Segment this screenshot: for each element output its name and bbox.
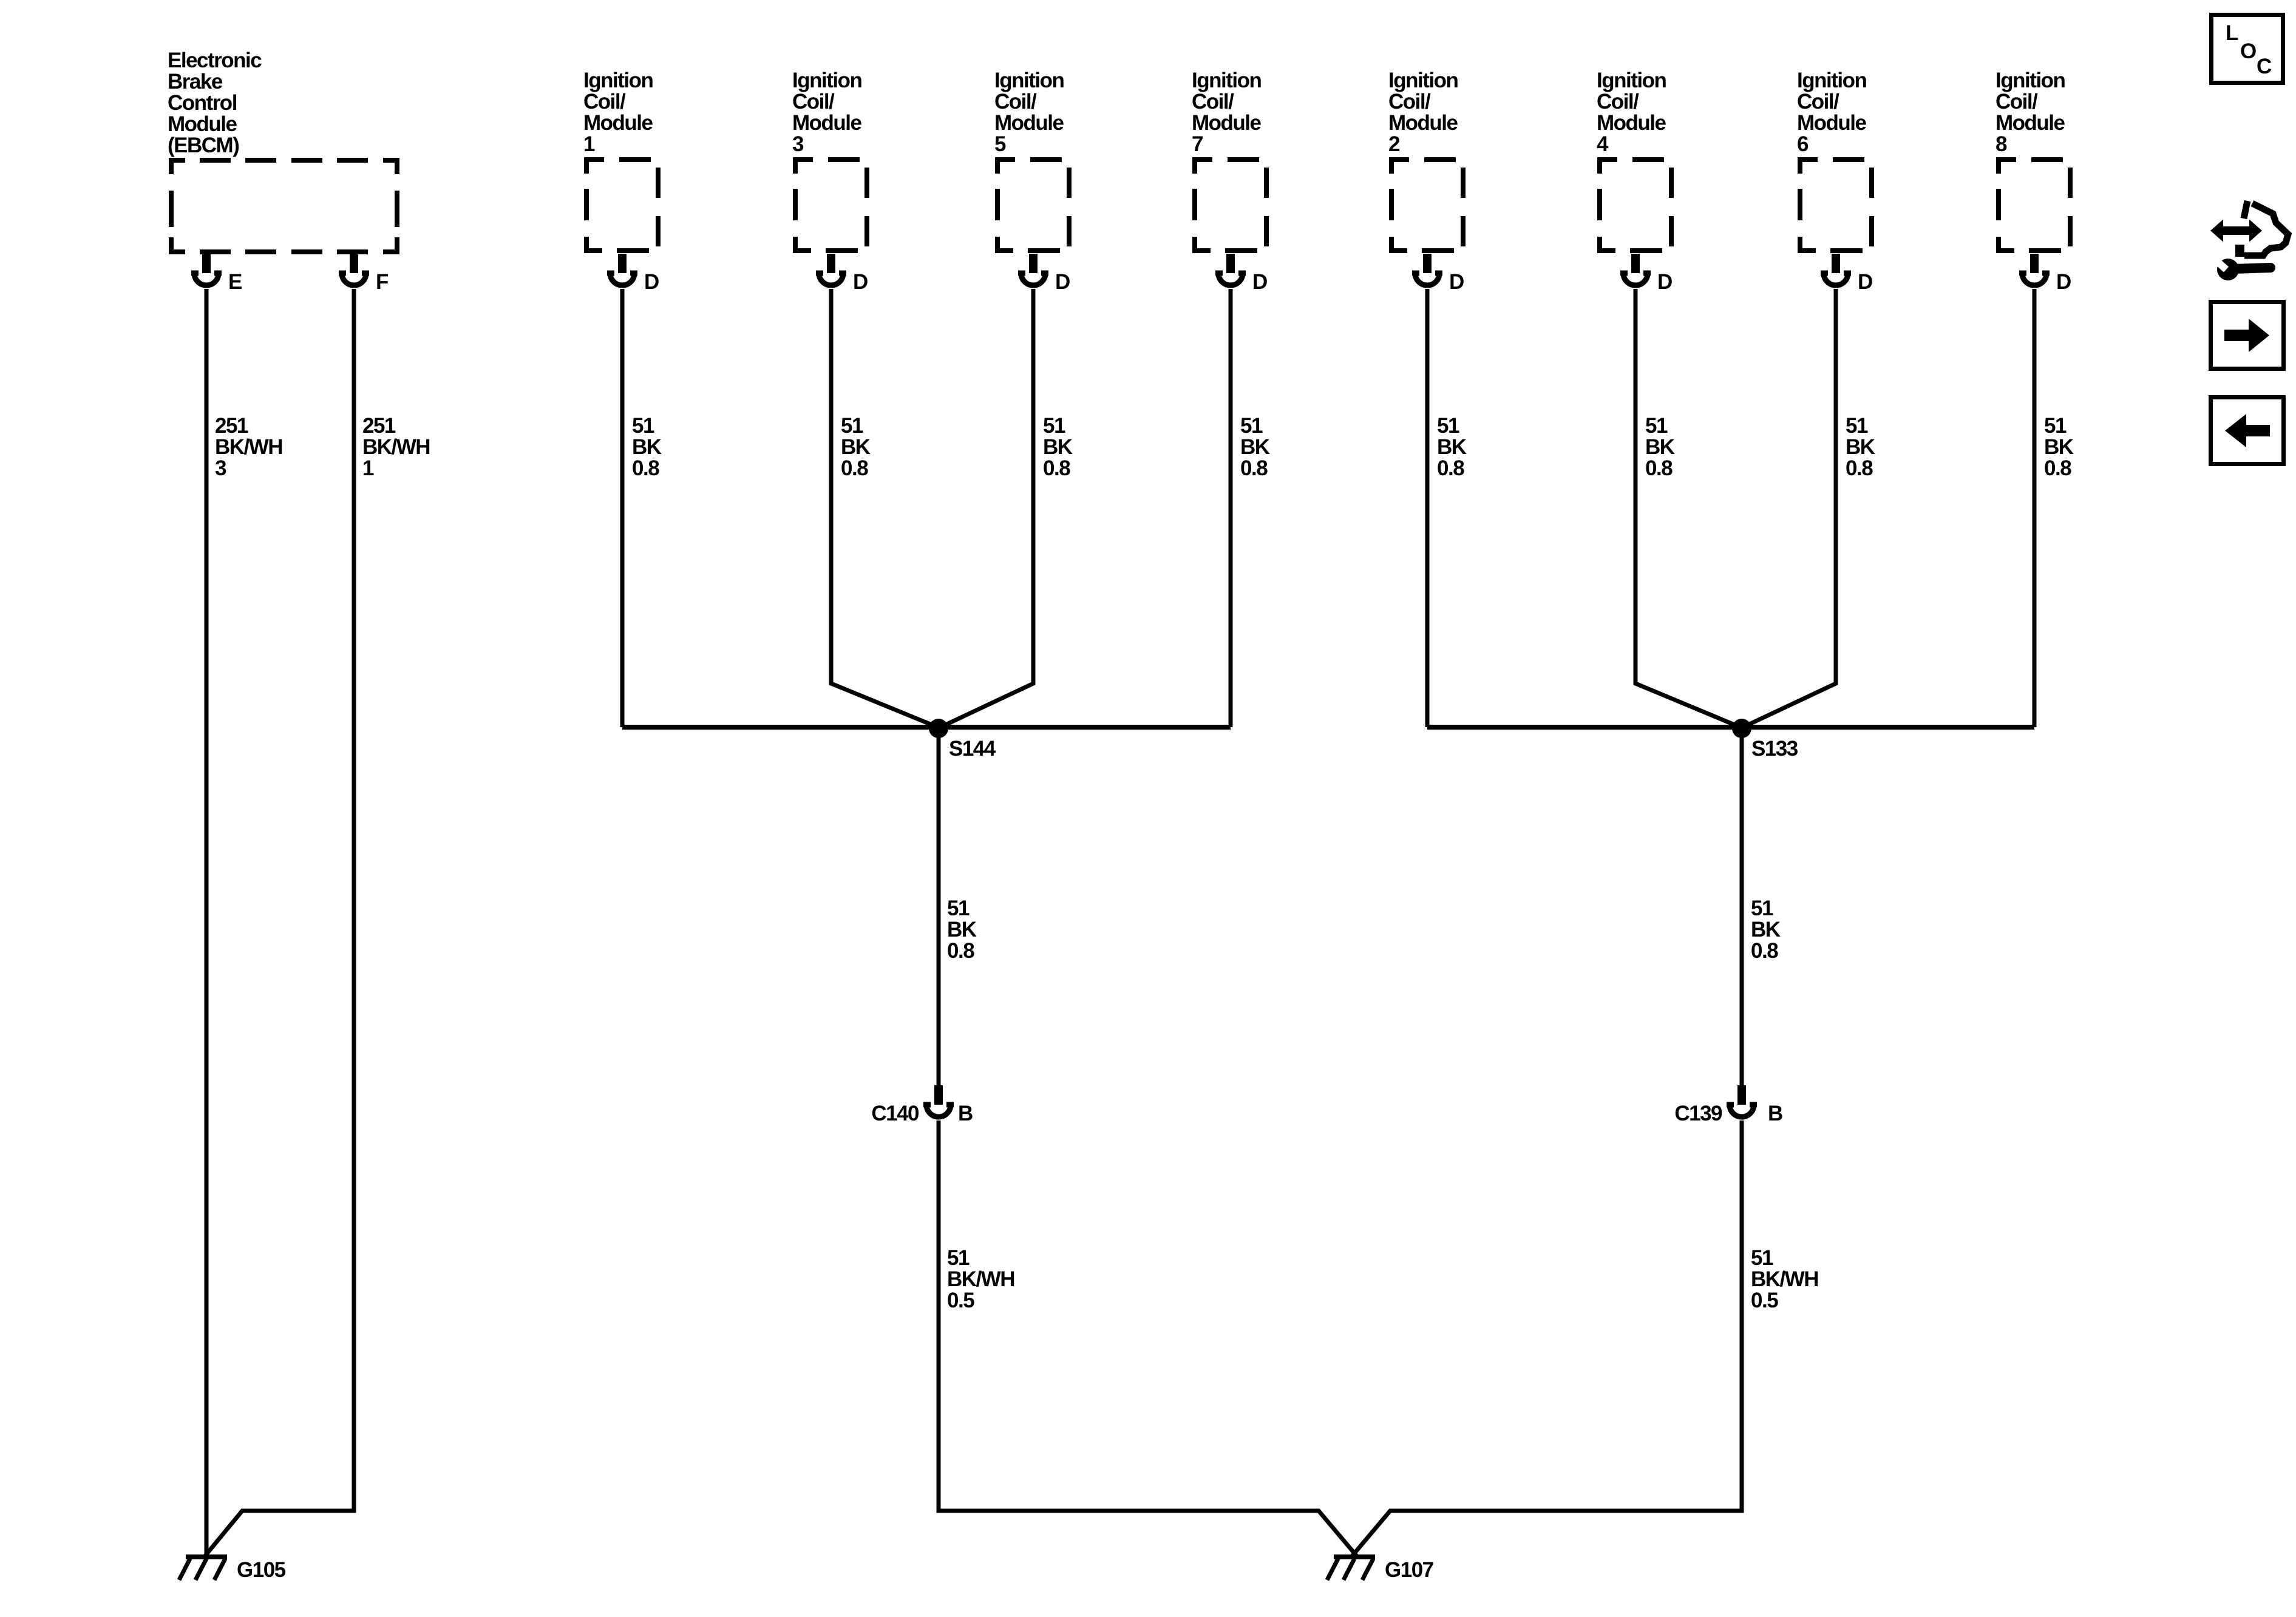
svg-text:L: L [2226, 21, 2238, 45]
svg-text:Module: Module [1192, 111, 1262, 135]
pin D of coil 1 [607, 254, 659, 294]
svg-text:BK/WH: BK/WH [215, 435, 282, 459]
pin D of coil 7 [1215, 254, 1267, 294]
svg-text:51: 51 [2044, 414, 2067, 438]
pin D of coil 8 [2019, 254, 2071, 294]
svg-text:Ignition: Ignition [583, 69, 653, 92]
svg-text:Coil/: Coil/ [583, 90, 626, 114]
pin D of coil 5 [1018, 254, 1070, 294]
svg-text:C140: C140 [871, 1102, 919, 1125]
pin D of coil 6 [1821, 254, 1872, 294]
svg-text:Module: Module [1597, 111, 1666, 135]
svg-text:1: 1 [583, 132, 595, 156]
wire circuit 251 from pin E to G105 [206, 289, 282, 1554]
svg-text:Coil/: Coil/ [1192, 90, 1234, 114]
coil box 3 [792, 69, 867, 253]
svg-text:Ignition: Ignition [1797, 69, 1866, 92]
svg-text:G105: G105 [237, 1558, 286, 1582]
icon LOC box [2212, 15, 2283, 83]
svg-text:0.8: 0.8 [1240, 456, 1268, 480]
connector C140 pin B [871, 1085, 973, 1125]
svg-text:B: B [1768, 1102, 1782, 1125]
svg-text:Module: Module [1797, 111, 1867, 135]
wire 51 BK from coil 3 to S144 [831, 289, 939, 728]
svg-text:S144: S144 [949, 737, 996, 761]
svg-text:0.8: 0.8 [1437, 456, 1464, 480]
svg-text:Ignition: Ignition [994, 69, 1064, 92]
svg-text:Ignition: Ignition [1388, 69, 1458, 92]
coil box 6 [1797, 69, 1872, 253]
svg-text:0.8: 0.8 [632, 456, 659, 480]
svg-text:51: 51 [632, 414, 654, 438]
svg-text:BK: BK [1645, 435, 1675, 459]
wire 51 BK from coil 6 to S133 [1742, 289, 1875, 728]
svg-text:(EBCM): (EBCM) [168, 134, 239, 157]
svg-text:Electronic: Electronic [168, 49, 262, 72]
svg-text:1: 1 [362, 456, 374, 480]
svg-text:51: 51 [1846, 414, 1868, 438]
svg-text:0.8: 0.8 [1043, 456, 1070, 480]
coil box 1 [583, 69, 658, 253]
svg-text:51: 51 [1751, 897, 1773, 920]
svg-text:0.5: 0.5 [947, 1289, 974, 1312]
svg-text:51: 51 [1437, 414, 1459, 438]
svg-text:0.8: 0.8 [1645, 456, 1673, 480]
svg-text:D: D [644, 270, 659, 294]
wire 51 BK from S144 to C140 [939, 728, 977, 1085]
wire circuit 251 from pin F to G105 [205, 289, 430, 1556]
icon back arrow box [2211, 398, 2284, 464]
svg-text:D: D [1055, 270, 1070, 294]
svg-text:0.5: 0.5 [1751, 1289, 1778, 1312]
svg-text:Ignition: Ignition [1597, 69, 1666, 92]
svg-text:251: 251 [362, 414, 396, 438]
svg-text:S133: S133 [1751, 737, 1798, 761]
svg-text:51: 51 [947, 1246, 970, 1270]
wire 51 BK/WH from C139 to G107 [1351, 1120, 1818, 1558]
svg-text:4: 4 [1597, 132, 1609, 156]
pin D of coil 4 [1620, 254, 1672, 294]
svg-text:Module: Module [168, 112, 237, 136]
svg-text:D: D [2056, 270, 2071, 294]
svg-text:BK: BK [2044, 435, 2074, 459]
wire 51 BK/WH from C140 to G107 [939, 1120, 1358, 1558]
svg-text:BK: BK [1437, 435, 1467, 459]
svg-text:BK: BK [1240, 435, 1270, 459]
svg-text:Module: Module [1388, 111, 1458, 135]
svg-text:Coil/: Coil/ [1597, 90, 1639, 114]
icon wrench with double arrow [2210, 201, 2288, 280]
svg-text:8: 8 [1995, 132, 2007, 156]
bus wire into splice S144 [622, 725, 1231, 730]
svg-text:0.8: 0.8 [2044, 456, 2071, 480]
svg-text:C139: C139 [1674, 1102, 1722, 1125]
wire 51 BK from coil 4 to S133 [1635, 289, 1742, 728]
svg-text:C: C [2257, 55, 2272, 78]
svg-text:Coil/: Coil/ [792, 90, 835, 114]
pin D of coil 2 [1412, 254, 1464, 294]
svg-text:Brake: Brake [168, 70, 223, 93]
svg-text:O: O [2240, 39, 2256, 63]
icon forward arrow box [2211, 302, 2284, 369]
svg-text:251: 251 [215, 414, 248, 438]
svg-text:Module: Module [792, 111, 862, 135]
svg-text:51: 51 [947, 897, 970, 920]
svg-text:F: F [376, 270, 389, 294]
svg-text:0.8: 0.8 [947, 939, 974, 963]
coil box 5 [994, 69, 1069, 253]
module EBCM dashed box [169, 158, 399, 254]
pin E of EBCM [191, 254, 242, 294]
svg-text:D: D [853, 270, 868, 294]
svg-text:6: 6 [1797, 132, 1809, 156]
svg-text:BK: BK [1846, 435, 1875, 459]
svg-text:D: D [1252, 270, 1267, 294]
svg-text:2: 2 [1388, 132, 1400, 156]
svg-text:Ignition: Ignition [1192, 69, 1261, 92]
svg-text:51: 51 [841, 414, 863, 438]
splice S144 [929, 719, 996, 761]
wire 51 BK from coil 7 to S144 [1231, 289, 1270, 727]
svg-text:3: 3 [792, 132, 804, 156]
svg-text:Control: Control [168, 91, 237, 115]
svg-text:Module: Module [583, 111, 653, 135]
pin D of coil 3 [816, 254, 868, 294]
coil box 4 [1597, 69, 1671, 253]
svg-text:51: 51 [1645, 414, 1668, 438]
svg-text:0.8: 0.8 [1751, 939, 1778, 963]
svg-text:0.8: 0.8 [841, 456, 868, 480]
svg-text:5: 5 [994, 132, 1006, 156]
ground G107 [1327, 1554, 1433, 1582]
pin F of EBCM [339, 254, 389, 294]
svg-text:Coil/: Coil/ [1388, 90, 1431, 114]
bus wire into splice S133 [1427, 725, 2034, 730]
svg-text:G107: G107 [1385, 1558, 1433, 1582]
module EBCM label [168, 49, 262, 157]
svg-text:3: 3 [215, 456, 226, 480]
svg-text:51: 51 [1240, 414, 1263, 438]
svg-text:51: 51 [1043, 414, 1065, 438]
svg-text:Module: Module [1995, 111, 2065, 135]
wire 51 BK from coil 2 to S133 [1427, 289, 1467, 727]
svg-text:Ignition: Ignition [792, 69, 861, 92]
svg-text:BK/WH: BK/WH [1751, 1267, 1818, 1291]
svg-text:7: 7 [1192, 132, 1203, 156]
splice S133 [1732, 719, 1798, 761]
svg-text:Coil/: Coil/ [1797, 90, 1839, 114]
svg-text:Coil/: Coil/ [994, 90, 1037, 114]
svg-text:Ignition: Ignition [1995, 69, 2065, 92]
ground G105 [179, 1554, 286, 1582]
svg-text:BK: BK [1751, 918, 1781, 941]
wire 51 BK from coil 8 to S133 [2034, 289, 2074, 727]
svg-text:D: D [1858, 270, 1872, 294]
svg-text:D: D [1449, 270, 1464, 294]
svg-text:Coil/: Coil/ [1995, 90, 2038, 114]
svg-text:BK: BK [1043, 435, 1073, 459]
svg-text:BK: BK [632, 435, 662, 459]
coil box 7 [1192, 69, 1266, 253]
coil box 8 [1995, 69, 2070, 253]
wire 51 BK from coil 1 to S144 [622, 289, 662, 727]
svg-text:D: D [1657, 270, 1672, 294]
svg-text:B: B [958, 1102, 973, 1125]
svg-text:BK/WH: BK/WH [947, 1267, 1014, 1291]
svg-text:BK: BK [947, 918, 977, 941]
wire 51 BK from coil 5 to S144 [939, 289, 1073, 728]
coil box 2 [1388, 69, 1463, 253]
svg-text:Module: Module [994, 111, 1064, 135]
svg-text:51: 51 [1751, 1246, 1773, 1270]
connector C139 pin B [1674, 1085, 1782, 1125]
wire 51 BK from S133 to C139 [1742, 728, 1781, 1085]
svg-text:E: E [228, 270, 242, 294]
svg-text:BK: BK [841, 435, 871, 459]
svg-text:BK/WH: BK/WH [362, 435, 430, 459]
svg-text:0.8: 0.8 [1846, 456, 1873, 480]
